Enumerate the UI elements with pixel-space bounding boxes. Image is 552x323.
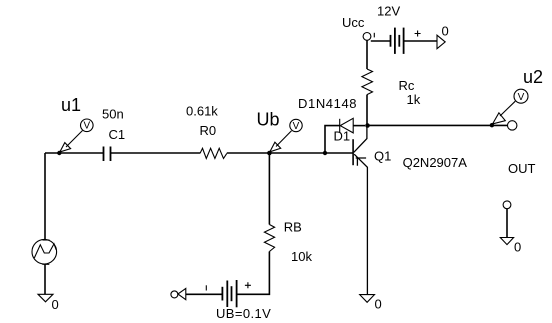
svg-text:50n: 50n — [102, 107, 124, 122]
transistor Q1 emitter — [354, 154, 367, 294]
resistor R0 — [200, 148, 227, 158]
node u2 junction dot — [490, 123, 494, 127]
wire left vertical to source — [44, 153, 46, 240]
wire diode to collector node — [353, 125, 365, 127]
svg-text:0: 0 — [514, 240, 521, 255]
node u1 junction dot — [57, 151, 61, 155]
bubble Ucc circle — [363, 33, 371, 41]
svg-text:D1: D1 — [334, 129, 351, 144]
transistor Q1 collector — [354, 128, 367, 153]
wire main left corner to C1 — [45, 152, 103, 154]
source waveform — [34, 244, 56, 258]
probe u2 arrowhead — [493, 113, 506, 124]
wire RB top — [268, 153, 270, 225]
bubble ground triangle left — [178, 288, 186, 299]
svg-text:OUT: OUT — [508, 161, 536, 176]
transistor Q1 emitter arrow — [356, 158, 366, 166]
probe u1 circle V — [81, 119, 94, 132]
probe Ub arrowhead — [270, 142, 281, 152]
svg-text:Ub: Ub — [257, 110, 280, 130]
svg-text:Q1: Q1 — [374, 149, 391, 164]
svg-text:V: V — [83, 121, 90, 132]
battery UB plates — [222, 280, 236, 307]
pin bubble floating — [503, 201, 511, 209]
svg-text:Rc: Rc — [399, 78, 415, 93]
ground 0 top-right — [437, 35, 445, 49]
resistor Rc — [362, 69, 373, 95]
ground 0 floating — [500, 238, 513, 245]
wire battery to ground right — [404, 40, 437, 42]
bubble OUT circle — [508, 121, 517, 130]
svg-text:UB=0.1V: UB=0.1V — [216, 306, 271, 321]
wire pin to ground — [506, 209, 508, 238]
source plus mark — [43, 239, 50, 241]
capacitor C1 — [104, 147, 111, 162]
svg-text:V: V — [293, 121, 300, 132]
ground 0 emitter — [360, 295, 375, 303]
svg-text:1k: 1k — [407, 92, 421, 107]
probe u1 stem — [66, 131, 83, 148]
node diode branch dot — [323, 151, 327, 155]
battery 12V plus — [415, 31, 421, 37]
wire C1 to R0 — [111, 152, 201, 154]
wire Ucc to Rc — [366, 40, 368, 69]
node collector junction dot — [365, 123, 370, 128]
transistor Q1 base bar — [352, 139, 354, 165]
probe u2 stem — [500, 101, 515, 116]
svg-text:V: V — [518, 92, 525, 103]
wire Ucc to battery — [371, 40, 391, 42]
svg-text:0.61k: 0.61k — [186, 104, 218, 119]
probe u1 arrowhead — [60, 143, 71, 152]
wire Rc to collector node — [366, 95, 368, 126]
battery 12V minus — [373, 33, 375, 38]
svg-text:C1: C1 — [109, 127, 126, 142]
probe u2 circle V — [514, 89, 528, 103]
svg-text:RB: RB — [284, 220, 302, 235]
node Ub junction dot — [267, 151, 272, 156]
diode D1 cathode bar — [339, 119, 341, 133]
svg-text:0: 0 — [442, 24, 449, 39]
battery UB plus — [245, 282, 251, 288]
probe Ub stem — [276, 131, 292, 147]
probe Ub circle V — [290, 119, 302, 131]
battery 12V plates — [391, 28, 404, 54]
ground 0 bottom-left — [38, 294, 53, 302]
svg-text:0: 0 — [52, 297, 59, 312]
wire RB bottom — [237, 252, 270, 295]
resistor RB — [264, 225, 274, 252]
svg-text:0: 0 — [375, 297, 382, 312]
bubble ground circle left — [171, 291, 178, 298]
svg-text:D1N4148: D1N4148 — [298, 96, 357, 111]
battery UB minus — [205, 285, 207, 290]
wire R0 to base — [227, 152, 353, 154]
svg-text:u2: u2 — [523, 67, 543, 87]
svg-text:Q2N2907A: Q2N2907A — [403, 155, 468, 170]
svg-text:12V: 12V — [377, 4, 400, 19]
wire source to ground — [44, 264, 46, 294]
svg-text:R0: R0 — [200, 123, 217, 138]
svg-text:Ucc: Ucc — [342, 15, 365, 30]
svg-text:10k: 10k — [291, 249, 312, 264]
diode D1 triangle — [340, 118, 353, 133]
source minus mark — [42, 263, 49, 265]
wire base node up to diode — [325, 126, 340, 153]
wire collector node to OUT bubble — [368, 124, 508, 126]
source V1 sine — [32, 239, 57, 264]
svg-text:u1: u1 — [61, 95, 81, 115]
wire battery to bubble — [186, 293, 223, 295]
